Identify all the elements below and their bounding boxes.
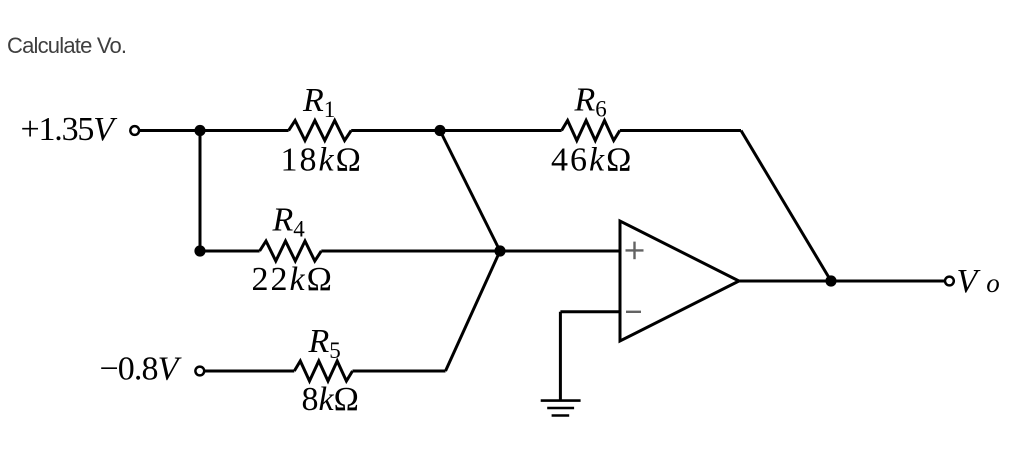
wire: diagonal from R5 bend up to junction NJ [446, 251, 501, 371]
wire: -0.8V terminal to resistor R5 [205, 370, 295, 373]
node N2 junction dot [194, 245, 205, 256]
wire: node N2 to resistor R4 [200, 250, 260, 253]
wire: vertical from node N1 down to node N2 [199, 131, 202, 252]
svg-text:Vo: Vo [957, 263, 1000, 300]
svg-text:R5: R5 [308, 323, 341, 363]
svg-text:R1: R1 [302, 82, 335, 122]
wire: vertical down to ground [559, 312, 562, 400]
svg-text:18kΩ: 18kΩ [281, 142, 363, 179]
node N1 junction dot [194, 125, 205, 136]
node NO output junction dot [825, 275, 836, 286]
ground symbol [541, 401, 581, 416]
resistor R5 zigzag [294, 361, 352, 381]
wire: op-amp output to Vo terminal [739, 280, 945, 283]
title text [7, 33, 126, 59]
svg-text:+1.35V: +1.35V [21, 111, 119, 148]
op-amp - input sign [626, 311, 641, 313]
wire: +1.35V terminal to node N1 [140, 129, 201, 132]
resistor R6 zigzag [562, 121, 620, 141]
resistor R1 zigzag [289, 121, 352, 141]
wire: resistor R5 to bend [353, 370, 446, 373]
wire: node N1 to resistor R1 [200, 129, 289, 132]
wire: diagonal from R6 bend down to output node NO [741, 131, 831, 282]
node NJ junction dot [494, 245, 505, 256]
terminal circle +1.35V [130, 126, 139, 135]
terminal circle Vo [945, 277, 954, 286]
resistor R4 zigzag [260, 241, 322, 261]
svg-text:22kΩ: 22kΩ [252, 261, 334, 298]
wire: node N3 to resistor R6 [440, 129, 562, 132]
svg-text:46kΩ: 46kΩ [551, 142, 633, 179]
node N3 junction dot [434, 125, 445, 136]
wire: junction NJ to op-amp + input [500, 250, 620, 253]
wire: op-amp - input stub to left [560, 310, 620, 313]
svg-text:8kΩ: 8kΩ [302, 381, 359, 418]
op-amp + input sign [626, 242, 644, 260]
svg-text:R4: R4 [272, 202, 306, 242]
wire: resistor R1 to node N3 [351, 129, 440, 132]
wire: resistor R4 to junction NJ [321, 250, 500, 253]
terminal circle -0.8V [195, 367, 204, 376]
svg-text:R6: R6 [574, 82, 607, 122]
op-amp U1 triangle [620, 221, 739, 341]
wire: diagonal node N3 down to junction NJ [440, 131, 500, 252]
wire: resistor R6 to bend [620, 129, 741, 132]
svg-text:−0.8V: −0.8V [100, 351, 183, 388]
